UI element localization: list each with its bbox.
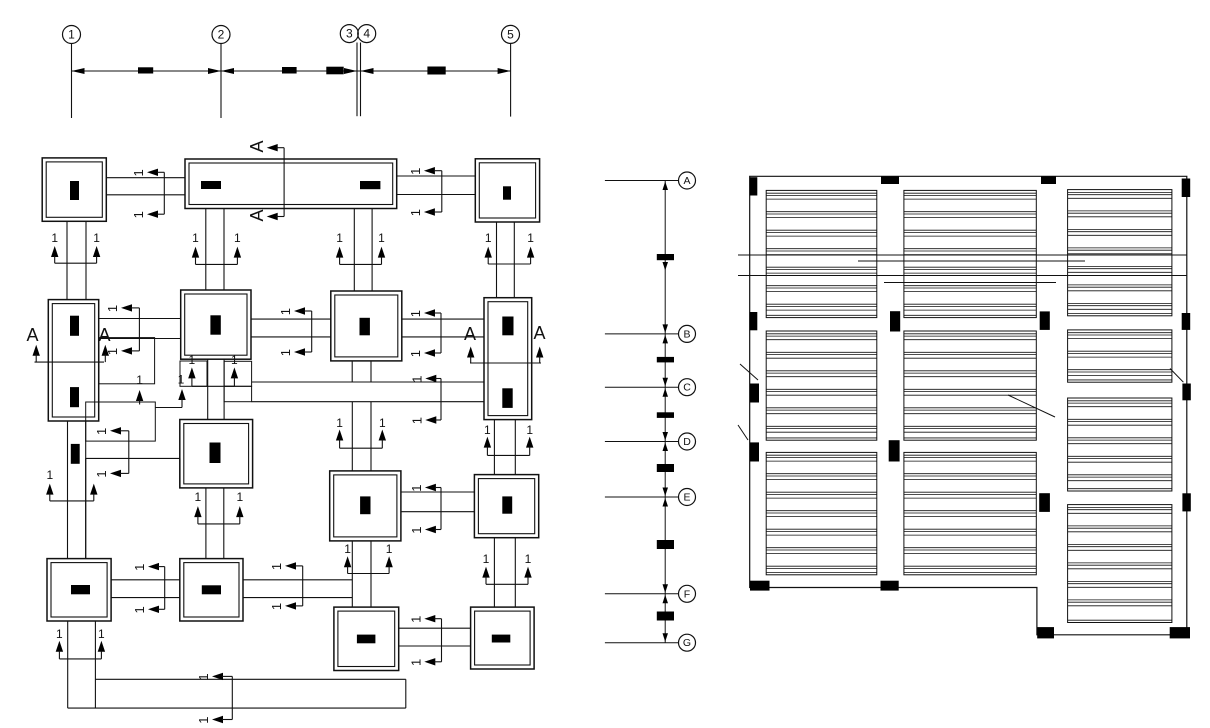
- svg-text:1: 1: [131, 211, 146, 218]
- dim text blob span A-B: [657, 254, 674, 260]
- strip to F9: [352, 402, 371, 471]
- svg-text:1: 1: [526, 423, 533, 437]
- svg-text:1: 1: [485, 231, 492, 245]
- slab column bottom ext 1: [1037, 627, 1054, 638]
- column C5: [210, 315, 220, 334]
- junction rect below: [224, 386, 252, 401]
- column C10: [502, 496, 512, 513]
- svg-text:1: 1: [98, 627, 105, 641]
- grid line E: [605, 496, 679, 498]
- slab bar line upper partial: [858, 260, 1085, 262]
- grid line 5: [510, 44, 512, 117]
- dim arrow at grid 1: [72, 68, 85, 74]
- strip F6 down: [352, 361, 371, 382]
- grid line G: [605, 642, 679, 644]
- dim arrows at grid C: [663, 378, 669, 397]
- footing F1 (grid 1-A): [42, 158, 106, 221]
- footing F14 (grid 5-G): [471, 607, 534, 669]
- svg-text:1: 1: [136, 373, 143, 387]
- section 1-1 marker strip F6-F7: [408, 309, 441, 357]
- svg-text:1: 1: [386, 542, 393, 556]
- svg-text:1: 1: [336, 416, 343, 430]
- junction outline row D grid 1-2: [86, 458, 180, 558]
- column C9: [360, 496, 370, 514]
- footing F3 (grid 5-A): [475, 159, 539, 222]
- column C13: [357, 635, 376, 644]
- slab panel S9 bay 3 row 3: [1068, 398, 1172, 491]
- strip F10-F14: [494, 538, 515, 607]
- section 1-1 marker strip F12-F13: [269, 562, 303, 610]
- slab column right edge B: [1182, 313, 1191, 330]
- beam mark diagonal left 1: [740, 364, 758, 380]
- strip row C: [252, 382, 484, 402]
- strip arrows below column C15: [46, 468, 97, 501]
- dim arrows at grid A: [663, 182, 669, 191]
- svg-text:A: A: [464, 324, 476, 344]
- section 1-1 marker bottom strip: [196, 673, 232, 724]
- svg-text:1: 1: [408, 350, 423, 357]
- svg-text:1: 1: [408, 616, 423, 623]
- grid line D: [605, 441, 679, 443]
- strip arrow in junction rect grid 1-2: [136, 373, 143, 405]
- footing F4 combined (grid 1-B/C): [48, 300, 98, 421]
- svg-text:C: C: [683, 382, 691, 394]
- grid bubble F: [679, 585, 696, 602]
- dim arrows at grid D: [663, 432, 669, 451]
- svg-text:4: 4: [363, 27, 370, 41]
- svg-text:1: 1: [46, 468, 53, 482]
- footing F2 combined (grid 2/3-A): [185, 159, 397, 209]
- footing F5 (grid 2-B): [181, 290, 251, 359]
- dim text blob span C-D: [657, 412, 674, 418]
- grid bubble C: [679, 379, 696, 396]
- footing F7 combined (grid 5-B/C): [484, 298, 532, 420]
- svg-text:1: 1: [409, 417, 424, 424]
- column C4a: [70, 316, 79, 336]
- dim text blob span 3-4: [326, 67, 343, 75]
- slab panel S2 bay 2 row 1: [904, 190, 1036, 317]
- svg-text:3: 3: [346, 27, 353, 41]
- strip arrows below F5: [188, 353, 238, 386]
- strip F2-F5: [206, 209, 224, 291]
- slab column right edge E: [1182, 493, 1190, 511]
- strip F2-F3: [397, 176, 476, 195]
- slab column interior 2B: [1040, 311, 1050, 330]
- svg-text:1: 1: [409, 526, 424, 533]
- strip arrow at F8 left edge: [178, 373, 186, 408]
- svg-text:1: 1: [409, 375, 424, 382]
- column C2b: [360, 181, 380, 189]
- strip F13-F14: [399, 628, 471, 646]
- svg-text:1: 1: [231, 353, 238, 367]
- svg-text:1: 1: [105, 305, 120, 312]
- footing F12 (grid 2-F): [180, 559, 243, 621]
- strip F6-F7: [402, 319, 484, 337]
- grid line C: [605, 386, 679, 388]
- svg-text:1: 1: [278, 349, 293, 356]
- grid bubble E: [679, 489, 696, 506]
- strip arrows below F2 left: [192, 231, 241, 264]
- slab column bottom edge 2: [881, 581, 899, 591]
- strip arrows above F14: [482, 552, 531, 584]
- junction line to F8: [155, 407, 182, 409]
- dim tick below blob A-B: [663, 262, 669, 271]
- slab column left edge C: [750, 384, 759, 403]
- grid line F: [605, 593, 679, 595]
- dim text blob span E-F: [657, 540, 674, 549]
- footing F10 (grid 5-E): [474, 475, 538, 538]
- strip F1-F2: [106, 178, 185, 195]
- slab panel S5 bay 2 row 2: [904, 331, 1036, 440]
- footing F6 (grid 3-B): [331, 291, 402, 361]
- strip F8-F12: [206, 488, 224, 559]
- slab column interior 2E: [1039, 493, 1050, 512]
- svg-text:A: A: [683, 175, 690, 187]
- slab section line lower: [738, 275, 1187, 277]
- svg-text:1: 1: [189, 353, 196, 367]
- strip arrows above F13: [344, 542, 393, 574]
- column C11: [71, 585, 90, 594]
- strip F12-F13: [243, 580, 352, 598]
- svg-text:1: 1: [269, 603, 284, 610]
- slab column interior 1D: [889, 440, 900, 461]
- strip arrows below F1: [51, 231, 100, 263]
- strip F11 down: [68, 621, 96, 708]
- strip arrows below F2 right: [336, 231, 385, 264]
- dim text blob span D-E: [657, 464, 674, 472]
- slab plan outer border: [750, 176, 1187, 635]
- column C4b: [70, 387, 79, 407]
- slab section line upper: [738, 254, 1187, 256]
- svg-text:1: 1: [408, 310, 423, 317]
- svg-text:1: 1: [483, 552, 490, 566]
- svg-text:1: 1: [131, 169, 146, 176]
- section 1-1 marker junction grid 1: [94, 427, 129, 478]
- slab column right edge C: [1182, 384, 1190, 401]
- strip F9-F13: [352, 541, 371, 607]
- slab panel S6 bay 3 row 2: [1068, 330, 1172, 382]
- slab panel S7 bay 1 row 3: [766, 452, 877, 574]
- footing F8 (grid 2-D): [180, 420, 253, 488]
- beam mark diagonal middle: [1008, 395, 1055, 417]
- section A-A marker left: [26, 325, 110, 362]
- slab column left edge D: [750, 442, 759, 461]
- svg-text:D: D: [683, 436, 691, 448]
- svg-text:1: 1: [105, 348, 120, 355]
- svg-text:1: 1: [378, 231, 385, 245]
- column C7b: [502, 388, 512, 408]
- grid bubble D: [679, 433, 696, 450]
- svg-text:A: A: [26, 325, 38, 345]
- svg-text:1: 1: [527, 231, 534, 245]
- svg-text:1: 1: [408, 659, 423, 666]
- section 1-1 marker strip F1-F2: [131, 169, 164, 219]
- grid line 3: [356, 43, 358, 117]
- grid bubble G: [679, 634, 696, 651]
- slab column bottom ext 2: [1170, 627, 1190, 638]
- section 1-1 marker strip F5-F6: [278, 307, 312, 356]
- middle grid vertical line: [664, 181, 666, 643]
- dim text blob span B-C: [657, 357, 674, 363]
- strip F5-F8: [208, 359, 224, 419]
- slab column top-right corner: [1182, 179, 1191, 198]
- section 1-1 marker strip F4-F5: [105, 304, 139, 355]
- column C1: [70, 181, 79, 200]
- svg-text:1: 1: [484, 423, 491, 437]
- column C8: [210, 443, 221, 464]
- grid line 2: [220, 44, 222, 119]
- slab bar line lower partial: [884, 282, 1056, 284]
- column C14: [492, 635, 511, 643]
- section 1-1 marker strip F11-F12: [132, 563, 165, 614]
- strip F3-F7: [497, 222, 515, 298]
- junction rect row C grid 1: [86, 402, 156, 441]
- svg-text:1: 1: [196, 673, 211, 680]
- dim arrows at grids 3-4: [344, 68, 374, 74]
- svg-text:1: 1: [408, 209, 423, 216]
- grid line B: [605, 333, 679, 335]
- slab panel S4 bay 1 row 2: [766, 331, 877, 440]
- dim text blob span F-G: [657, 612, 674, 621]
- svg-text:1: 1: [178, 373, 185, 387]
- dim text blob span 4-5: [427, 67, 445, 75]
- strip F4-F5: [99, 319, 181, 339]
- svg-text:1: 1: [234, 231, 241, 245]
- grid bubble 1: [63, 26, 81, 44]
- svg-text:1: 1: [408, 168, 423, 175]
- junction rect right of strip F5-F8: [224, 361, 252, 386]
- dim arrows at grid G: [663, 633, 669, 642]
- slab panel S1 bay 1 row 1: [766, 190, 877, 317]
- svg-text:A: A: [247, 140, 267, 152]
- svg-text:1: 1: [192, 231, 199, 245]
- svg-text:1: 1: [93, 231, 100, 245]
- svg-text:5: 5: [507, 27, 514, 41]
- svg-text:G: G: [683, 637, 691, 649]
- strip F7-F10: [494, 420, 515, 475]
- dim arrows at grid B: [663, 324, 669, 343]
- svg-text:1: 1: [236, 490, 243, 504]
- dim arrows at grid E: [663, 488, 669, 507]
- svg-text:1: 1: [196, 716, 211, 723]
- strip F4-F11: [68, 421, 86, 559]
- svg-text:A: A: [247, 209, 267, 221]
- strip arrows above F9: [336, 416, 386, 448]
- section 1-1 marker strip row C: [409, 375, 441, 424]
- column C6: [360, 318, 370, 336]
- column C15 on strip (grid 1-D): [71, 444, 80, 464]
- grid line 1: [71, 44, 73, 119]
- footing F11 (grid 1-F): [47, 559, 111, 621]
- section 1-1 marker strip F2-F3: [408, 167, 442, 216]
- svg-text:1: 1: [409, 484, 424, 491]
- dimension line 1-5: [72, 70, 511, 72]
- grid bubble B: [679, 325, 696, 342]
- footing F13 (grid 3-G): [334, 607, 399, 670]
- svg-text:B: B: [683, 328, 690, 340]
- dim arrows at grid F: [663, 584, 669, 603]
- svg-text:1: 1: [94, 428, 109, 435]
- junction rect left of strip F5-F8: [180, 361, 207, 386]
- slab column left edge B: [750, 312, 758, 330]
- column C12: [202, 585, 221, 594]
- svg-text:A: A: [98, 325, 110, 345]
- column C2a: [201, 181, 221, 189]
- grid bubble 5: [502, 25, 520, 43]
- strip F11-F12: [111, 580, 180, 598]
- section 1-1 marker strip F9-F10: [409, 484, 441, 534]
- slab column top-left corner: [750, 177, 758, 195]
- svg-text:1: 1: [68, 28, 75, 42]
- svg-text:1: 1: [379, 416, 386, 430]
- svg-text:1: 1: [56, 627, 63, 641]
- slab column top edge 1: [881, 176, 899, 184]
- slab panel S10 bay 3 row 4: [1068, 505, 1172, 623]
- grid line A: [605, 180, 679, 182]
- column C3: [503, 186, 511, 199]
- svg-text:1: 1: [94, 470, 109, 477]
- svg-text:1: 1: [195, 490, 202, 504]
- slab column bottom edge 1: [750, 581, 770, 591]
- svg-text:1: 1: [344, 542, 351, 556]
- section A-A marker top through F2: [247, 140, 284, 221]
- strip F2-F6: [354, 209, 372, 292]
- strip F9-F10: [401, 492, 475, 512]
- footing F9 (grid 3-E): [330, 471, 401, 541]
- strip arrows below F7: [484, 423, 534, 455]
- svg-text:1: 1: [278, 308, 293, 315]
- svg-text:A: A: [533, 323, 545, 343]
- grid bubble A: [679, 172, 696, 189]
- strip arrows below F11: [56, 627, 105, 659]
- svg-text:1: 1: [336, 231, 343, 245]
- svg-text:1: 1: [525, 552, 532, 566]
- svg-text:1: 1: [132, 564, 147, 571]
- column C7a: [502, 317, 513, 336]
- svg-text:2: 2: [218, 28, 225, 42]
- slab panel S8 bay 2 row 3: [904, 452, 1036, 574]
- dim arrows at grid 2: [208, 68, 234, 74]
- beam mark diagonal left 2: [738, 425, 748, 440]
- svg-text:1: 1: [51, 231, 58, 245]
- grid bubble 4: [358, 25, 376, 43]
- svg-text:E: E: [683, 492, 690, 504]
- slab column interior 1B: [890, 311, 900, 331]
- dim text blob span 1-2: [138, 67, 153, 73]
- strip arrows below F8: [194, 490, 243, 524]
- svg-text:F: F: [684, 588, 690, 600]
- section 1-1 marker strip F13-F14: [408, 615, 441, 666]
- slab panel S3 bay 3 row 1: [1068, 190, 1172, 316]
- dim text blob span 2-3: [282, 67, 297, 74]
- svg-text:1: 1: [132, 606, 147, 613]
- strip F1-F4: [67, 221, 86, 299]
- dim arrow at grid 5: [498, 68, 511, 74]
- svg-text:1: 1: [269, 563, 284, 570]
- slab column top edge 2: [1041, 176, 1056, 184]
- strip F5-F6: [251, 319, 331, 337]
- strip arrows below F3: [485, 231, 535, 264]
- junction rect row B-C grid 1-2: [99, 338, 155, 384]
- grid bubble 3: [340, 25, 358, 43]
- section A-A marker right: [464, 323, 546, 363]
- bottom tie strip: [68, 679, 406, 708]
- grid bubble 2: [212, 26, 230, 44]
- grid line 4: [360, 43, 362, 117]
- beam mark diagonal right: [1170, 369, 1183, 383]
